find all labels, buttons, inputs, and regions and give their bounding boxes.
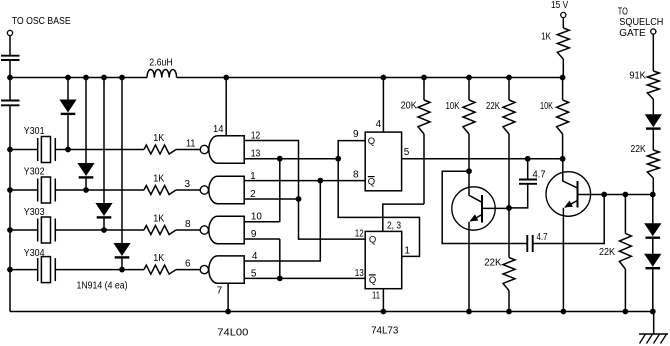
svg-text:1K: 1K [153, 214, 164, 225]
wire [67, 115, 69, 150]
junction [561, 309, 567, 315]
diode D2 1N914 [77, 163, 94, 177]
flip-flop U2a 74L73 [365, 132, 401, 191]
wire [121, 78, 123, 244]
svg-text:11: 11 [372, 290, 380, 301]
wire [624, 195, 626, 234]
wire [10, 269, 38, 271]
junction [560, 75, 566, 81]
resistor 22K [503, 258, 515, 291]
junction [101, 227, 107, 233]
junction [7, 267, 13, 273]
wire pin 12 net [244, 141, 365, 240]
svg-text:22K: 22K [484, 258, 501, 269]
wire top bus left [10, 77, 147, 79]
resistor R3 1K [144, 226, 176, 235]
junction [223, 75, 229, 81]
wire [55, 269, 144, 271]
capacitor 4.7 [519, 180, 537, 184]
diode D4 1N914 [113, 243, 130, 257]
svg-text:11: 11 [186, 138, 196, 149]
wire to pin 4 [244, 181, 320, 261]
wire [10, 149, 38, 151]
capacitor C2 [1, 101, 20, 106]
wire [176, 269, 200, 271]
junction [317, 178, 323, 184]
resistor 10K [557, 100, 569, 134]
junction [7, 147, 13, 153]
svg-text:6: 6 [185, 258, 191, 269]
wire 9-5 tie [279, 239, 281, 278]
svg-text:10K: 10K [540, 101, 553, 112]
label Qbar [368, 177, 375, 188]
wire [509, 184, 528, 208]
wire [85, 178, 87, 190]
wire [10, 189, 38, 191]
label Qbar [369, 275, 376, 286]
svg-text:1K: 1K [153, 253, 164, 264]
svg-text:4.7: 4.7 [537, 232, 548, 243]
svg-text:Q: Q [368, 177, 375, 188]
wire [9, 105, 11, 311]
wire [508, 291, 510, 312]
diode D1 1N914 [59, 100, 76, 114]
nand gate U1a 74L00 [200, 136, 244, 163]
svg-text:15 V: 15 V [551, 0, 568, 11]
wire [508, 134, 510, 208]
junction [7, 75, 13, 81]
svg-text:1K: 1K [153, 174, 164, 185]
wire pin 9 [244, 238, 280, 240]
wire collector frame [442, 171, 509, 243]
svg-text:13: 13 [355, 268, 364, 279]
junction [381, 75, 387, 81]
junction [7, 227, 13, 233]
terminal TO SQUELCH GATE [651, 29, 656, 34]
svg-text:12: 12 [355, 229, 364, 240]
transistor Q2 [546, 172, 604, 217]
wire pin 2 [244, 198, 298, 200]
svg-text:GATE: GATE [619, 28, 646, 39]
svg-text:3: 3 [185, 179, 191, 190]
svg-text:5: 5 [404, 147, 410, 158]
wire FF1 pin 5 line [402, 158, 563, 160]
wire base net [604, 194, 653, 196]
wire pin 7 [227, 283, 229, 311]
junction node Q1 base [506, 205, 512, 211]
junction node Q2 base [601, 192, 607, 198]
resistor 22K [503, 100, 515, 134]
svg-text:TO OSC BASE: TO OSC BASE [12, 16, 71, 27]
junction [381, 309, 387, 315]
resistor R4 1K [144, 265, 176, 274]
svg-text:4: 4 [376, 119, 382, 130]
wire [562, 18, 564, 28]
resistor R2 1K [144, 186, 176, 195]
wire [67, 78, 69, 100]
wire [468, 78, 470, 101]
capacitor 4.7 [527, 235, 532, 252]
wire [527, 159, 529, 180]
svg-text:8: 8 [353, 169, 359, 180]
wire Q1 collector [468, 171, 470, 190]
junction [506, 309, 512, 315]
crystal Y303 [38, 217, 56, 243]
wire 20K to 2,3 [423, 134, 425, 204]
wire pin 1 to FF1 pin 8 [244, 180, 365, 182]
crystal Y301 [38, 137, 56, 163]
junction [101, 75, 107, 81]
svg-text:8: 8 [185, 219, 191, 230]
diode D3 1N914 [95, 203, 112, 217]
wire [9, 36, 11, 56]
svg-text:1N914 (4 ea): 1N914 (4 ea) [77, 281, 128, 292]
svg-text:Y301: Y301 [24, 126, 45, 137]
junction [225, 309, 231, 315]
wire [652, 269, 654, 312]
svg-text:1K: 1K [153, 133, 164, 144]
wire [652, 99, 654, 114]
wire Q1 emitter [468, 230, 470, 311]
inductor L1 2.6uH [147, 70, 177, 78]
nand gate U1b 74L00 [200, 176, 244, 203]
wire 13-10 tie [279, 159, 281, 222]
svg-text:74L00: 74L00 [217, 328, 248, 339]
wire [9, 60, 11, 78]
junction [65, 75, 71, 81]
resistor 91K [647, 71, 659, 99]
wire [85, 78, 87, 164]
wire [624, 269, 626, 312]
junction [466, 168, 472, 174]
resistor R1 1K [144, 145, 176, 154]
junction [335, 156, 341, 162]
junction [650, 309, 656, 315]
junction [421, 75, 427, 81]
wire pin 10 [244, 221, 280, 223]
resistor 1K [557, 28, 569, 59]
junction [277, 156, 283, 162]
svg-text:22K: 22K [599, 247, 615, 258]
diode D7 [644, 254, 661, 268]
svg-text:10K: 10K [446, 101, 460, 112]
wire [509, 243, 527, 245]
resistor 10K [463, 100, 475, 134]
terminal TO OSC BASE [7, 30, 12, 35]
svg-text:22K: 22K [486, 101, 500, 112]
flip-flop U2b 74L73 [365, 231, 402, 288]
wire FF1 pin 4 [382, 78, 384, 133]
wire pin 14 [225, 78, 227, 136]
wire [176, 149, 200, 151]
wire [562, 134, 564, 159]
junction [119, 267, 125, 273]
wire [55, 189, 144, 191]
svg-text:Q: Q [369, 275, 376, 286]
nand gate U1d 74L00 [200, 256, 244, 283]
junction [277, 276, 283, 282]
wire FF2 pin 11 [382, 289, 384, 312]
junction [7, 187, 13, 193]
junction [623, 192, 629, 198]
wire Q2 emitter [562, 216, 564, 311]
svg-text:SQUELCH: SQUELCH [619, 17, 663, 28]
svg-text:7: 7 [217, 285, 223, 296]
ground [639, 334, 668, 344]
junction [650, 192, 656, 198]
junction [525, 156, 531, 162]
transistor Q1 [452, 187, 509, 230]
wire [652, 178, 654, 195]
diode D5 1N914 [645, 114, 662, 128]
wire [121, 258, 123, 270]
wire pin 13 net [244, 158, 338, 160]
wire [10, 229, 38, 231]
crystal Y302 [38, 177, 56, 203]
wire [55, 229, 144, 231]
junction [296, 196, 302, 202]
capacitor C1 [1, 56, 20, 60]
wire [562, 59, 564, 78]
junction [119, 75, 125, 81]
junction [623, 309, 629, 315]
svg-text:9: 9 [353, 129, 359, 140]
svg-text:Q: Q [369, 234, 376, 245]
wire [423, 78, 425, 101]
svg-text:2, 3: 2, 3 [387, 220, 401, 231]
wire bottom bus [10, 311, 654, 313]
wire [103, 78, 105, 204]
wire [468, 134, 470, 171]
crystal Y304 [38, 257, 56, 283]
terminal 15 V [561, 12, 566, 17]
svg-text:1: 1 [404, 245, 410, 256]
wire [533, 195, 605, 244]
wire [652, 129, 654, 150]
diode D6 [644, 223, 661, 237]
junction [560, 156, 566, 162]
wire [508, 208, 510, 258]
junction [83, 187, 89, 193]
resistor 22K [619, 233, 631, 269]
wire pin 5 to FF2 pin 13 [244, 277, 365, 279]
svg-text:20K: 20K [401, 100, 417, 111]
wire [176, 189, 200, 191]
svg-text:14: 14 [213, 124, 224, 135]
wire FF1 pin 9 net [338, 141, 419, 257]
svg-text:Q: Q [368, 136, 375, 147]
svg-text:Y302: Y302 [24, 167, 45, 178]
wire top bus right [177, 77, 563, 79]
wire [103, 218, 105, 230]
svg-text:91K: 91K [629, 71, 646, 82]
junction [466, 309, 472, 315]
junction [65, 147, 71, 153]
wire [652, 238, 654, 254]
svg-text:2.6uH: 2.6uH [149, 57, 173, 68]
wire [55, 149, 144, 151]
wire [508, 78, 510, 101]
svg-text:1K: 1K [541, 31, 551, 42]
junction [83, 75, 89, 81]
junction [466, 75, 472, 81]
resistor 22K [647, 150, 659, 178]
wire [176, 229, 200, 231]
nand gate U1c 74L00 [200, 216, 244, 243]
wire [9, 78, 11, 101]
svg-text:22K: 22K [631, 144, 646, 155]
junction [506, 75, 512, 81]
wire to ground [653, 312, 655, 335]
resistor 20K [418, 100, 430, 134]
wire [652, 34, 654, 71]
svg-text:74L73: 74L73 [371, 326, 399, 337]
wire [652, 195, 654, 224]
wire Q2 collector [562, 159, 564, 175]
wire [562, 78, 564, 101]
wire pins 2,3 [383, 204, 424, 231]
